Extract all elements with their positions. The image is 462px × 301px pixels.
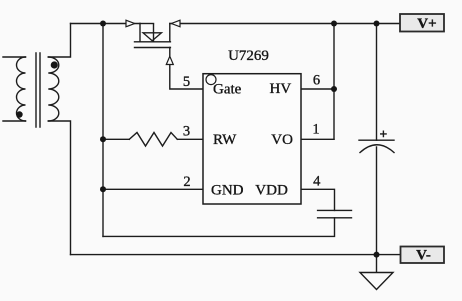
capacitor C2 plates [318,210,352,217]
arrow into mosfet left [126,20,135,27]
wire pin 4 to C2 [301,189,335,210]
transformer T1 secondary bottom lead [48,121,70,255]
mosfet Q1 top bar [140,23,154,25]
svg-text:VDD: VDD [255,182,288,198]
mosfet Q1 gate bar [135,47,171,49]
junction node HV top [331,21,337,27]
svg-text:6: 6 [313,73,320,89]
transformer T1 primary top lead [3,56,26,58]
terminal V+ [400,14,444,32]
junction node RW [100,136,106,142]
svg-text:V-: V- [416,248,431,264]
svg-text:2: 2 [183,174,190,190]
svg-text:HV: HV [270,81,292,97]
svg-text:4: 4 [313,174,321,190]
arrow into mosfet right [171,20,180,27]
wire top rail [71,23,141,25]
wire ground stub [376,255,378,273]
transformer T1 core [36,53,40,127]
wire pin 1 to vertical [301,138,334,140]
wire gate lead to pin 5 [170,48,203,90]
svg-text:V+: V+ [417,16,436,32]
mosfet Q1 center vertical [153,24,155,42]
ground symbol [360,273,393,290]
resistor R1 [129,133,177,147]
svg-text:Gate: Gate [213,81,242,97]
svg-text:U7269: U7269 [228,48,269,64]
mosfet Q1 right leg [169,24,171,42]
junction node C1 top rail [374,21,380,27]
wire pin 6 to HV node [301,88,334,90]
wire bottom rail [71,254,401,256]
transformer T1 primary bottom lead [3,120,26,122]
capacitor C1 plus sign [381,131,386,136]
transformer T1 secondary top lead [48,24,70,58]
wire RW node to resistor [103,138,129,140]
wire C1 top vertical [376,24,378,141]
junction node GND [100,186,106,192]
svg-text:VO: VO [271,132,293,148]
wire resistor to pin 3 [177,138,203,140]
transformer secondary dot [51,61,58,68]
svg-text:5: 5 [183,74,190,90]
junction node top-left [100,21,106,27]
capacitor C1 bottom plate [360,145,394,153]
wire GND node to pin 2 [103,188,203,190]
arrow up on gate lead [166,56,173,64]
capacitor C1 top plate [359,139,394,141]
IC U7269 pin-1 circle [206,75,216,85]
svg-text:GND: GND [211,182,244,198]
wire bottom inner (GND to C2) [103,218,335,237]
svg-text:RW: RW [213,132,237,148]
IC U7269 box [203,74,301,204]
svg-text:3: 3 [183,124,190,140]
wire top rail right of mosfet [170,23,400,25]
transformer primary dot [16,111,22,117]
mosfet Q1 body diode triangle [143,33,162,41]
wire left bus [102,24,104,237]
wire C1 bottom vertical [376,147,378,255]
junction node HV pin6 [331,86,337,92]
wire HV vertical [333,24,335,140]
transformer T1 primary winding [17,57,26,121]
junction node V- [374,252,380,258]
svg-text:1: 1 [312,121,319,137]
terminal V- [401,247,445,264]
mosfet Q1 channel bar [135,41,171,43]
transformer T1 secondary winding [48,57,59,121]
mosfet Q1 left leg [139,24,141,42]
